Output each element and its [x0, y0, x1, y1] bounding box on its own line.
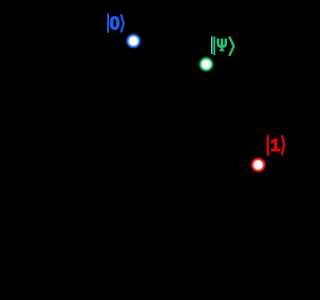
node |1> marker (red point)	[251, 158, 265, 172]
node |Psi> marker (green point)	[199, 57, 213, 71]
ghost bar (cyan)	[211, 36, 213, 54]
label |0> (blue ket)	[107, 13, 124, 34]
svg-text:1: 1	[270, 135, 280, 155]
label |Psi> (green ket)	[213, 36, 233, 55]
label |1> (red ket)	[267, 135, 285, 156]
node |0> marker (blue point)	[127, 34, 141, 48]
svg-text:0: 0	[110, 13, 120, 34]
svg-text:Ψ: Ψ	[216, 36, 227, 55]
